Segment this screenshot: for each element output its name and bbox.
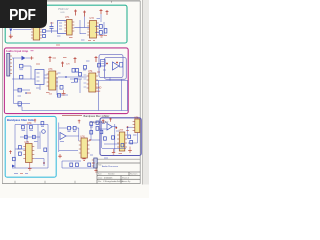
capacitor C12 xyxy=(30,126,33,129)
date text value xyxy=(103,177,124,183)
svg-text:PDF: PDF xyxy=(9,6,36,24)
svg-text:U?1: U?1 xyxy=(65,16,70,19)
wire (below U6 net) xyxy=(62,161,94,168)
value label (mid) xyxy=(66,64,70,66)
power dot (A3) xyxy=(116,62,118,64)
ground (purple box 1) xyxy=(128,147,132,153)
capacitor C28 xyxy=(84,66,87,70)
svg-text:Number: Number xyxy=(108,173,115,176)
power flag (left of purple box) xyxy=(78,120,81,124)
wire (U2 right rail) xyxy=(100,14,102,22)
title text value xyxy=(102,165,118,168)
capacitor C9 xyxy=(58,94,61,98)
junction node (mid wire) xyxy=(65,76,67,78)
relay K1 xyxy=(58,21,67,34)
junction node (U6 out) xyxy=(89,139,91,141)
preamp block A1 xyxy=(35,70,44,85)
op-amp A5 xyxy=(107,124,112,131)
wire (U5 output) xyxy=(34,159,44,167)
capacitor C8 xyxy=(75,79,78,83)
power flag +12V xyxy=(74,10,77,16)
svg-text:U?7: U?7 xyxy=(119,129,124,132)
wire stub (between regions) xyxy=(56,44,60,46)
driver U8 xyxy=(133,119,140,133)
svg-text:File:: File: xyxy=(98,181,102,183)
ground (below U5) xyxy=(28,163,32,171)
resistor R4 xyxy=(19,146,22,149)
capacitor Ca xyxy=(43,30,46,33)
capacitor C4 xyxy=(20,64,24,70)
capacitor C20 xyxy=(112,136,115,139)
svg-text:4/11/2005: 4/11/2005 xyxy=(104,177,112,179)
capacitor C24 xyxy=(121,144,124,147)
title block outline xyxy=(97,163,140,183)
capacitor C10 xyxy=(60,86,63,90)
value label (below U7) xyxy=(119,153,123,155)
wire (A1 to U3) xyxy=(40,78,47,90)
capacitor C16 xyxy=(90,122,93,126)
regulator U2 xyxy=(87,21,98,39)
transistor Q1 xyxy=(76,69,82,77)
resistor R1 xyxy=(104,29,107,36)
label (cap value) xyxy=(18,106,22,108)
junction node (pa) xyxy=(115,127,117,129)
capacitor C13 xyxy=(41,122,44,125)
svg-text:U?6: U?6 xyxy=(80,135,85,138)
label U2 xyxy=(90,17,95,20)
connector J2 xyxy=(92,158,97,168)
ground (mid low) xyxy=(58,154,62,158)
resistor R7 xyxy=(70,163,73,167)
sheet frame left border xyxy=(1,26,3,184)
svg-text:Revision: Revision xyxy=(130,174,137,176)
label U5 xyxy=(25,141,30,144)
ground (below D1) xyxy=(9,34,13,39)
capacitor C6 xyxy=(18,88,21,92)
label U1 xyxy=(65,16,70,19)
svg-text:U?2: U?2 xyxy=(90,17,95,20)
power amp U7 xyxy=(117,132,127,151)
wire (J1 to A1) xyxy=(12,58,35,104)
svg-text:Audio Processor: Audio Processor xyxy=(102,165,118,168)
purple sub box A xyxy=(99,55,123,78)
resistor R2 xyxy=(25,135,28,138)
capacitor C15 xyxy=(73,126,76,129)
value label specks (net/value texts) xyxy=(14,19,137,174)
resistor R6 xyxy=(19,152,22,155)
regulator U1 xyxy=(64,20,74,36)
svg-text:Audio Input Amp: Audio Input Amp xyxy=(6,49,29,53)
svg-text:12V: 12V xyxy=(66,64,70,66)
value label (below U3) xyxy=(49,94,53,96)
section label (dark) xyxy=(62,114,110,118)
capacitor C2 xyxy=(99,25,102,29)
power flag (pa1) xyxy=(102,119,105,123)
capacitor C18 xyxy=(100,130,103,133)
label U3 xyxy=(48,68,53,71)
wire (purple box nets) xyxy=(99,121,137,152)
comparator A3 xyxy=(113,62,120,70)
net label (red AGND text) xyxy=(96,91,101,93)
svg-text:Size: Size xyxy=(98,174,102,176)
CYAN REGION box (bandpass filter section) xyxy=(5,116,56,177)
wire (U4 output loop) xyxy=(22,78,128,111)
wire (vertical feedback) xyxy=(57,77,80,95)
capacitor C33 xyxy=(44,148,47,152)
PURPLE REGION box (output power amplifier) xyxy=(100,118,141,156)
wire (U1 to U2) xyxy=(74,17,89,35)
ground (below J2) xyxy=(94,168,97,172)
svg-text:U?9: U?9 xyxy=(27,122,32,125)
ground (green region right) xyxy=(100,36,104,38)
capacitor C21 xyxy=(128,135,131,138)
ground (purple box 2) xyxy=(112,149,115,154)
power flag (cyan left) xyxy=(9,150,12,154)
ground (mid magenta) xyxy=(62,90,66,95)
title block text xyxy=(98,164,137,184)
capacitor C19 xyxy=(104,137,107,140)
microphone jack J1 xyxy=(7,54,12,77)
regulator U0 (under badge) xyxy=(31,27,42,41)
sheet frame top border xyxy=(40,0,140,2)
net label PWR (gray text top) xyxy=(58,8,69,14)
svg-text:REF: REF xyxy=(96,91,101,93)
capacitor C1 xyxy=(50,22,54,33)
power flag (cyan top) xyxy=(34,119,36,123)
sheet frame bottom border xyxy=(2,183,141,185)
label U7 xyxy=(119,129,124,132)
capacitor C3 xyxy=(99,31,102,35)
op-amp U4 xyxy=(87,73,98,92)
wire (bp2 input) xyxy=(59,123,91,153)
capacitor C11 xyxy=(22,126,25,129)
capacitor C23 xyxy=(96,121,99,124)
op-amp U6 xyxy=(79,138,90,158)
label U4 xyxy=(88,70,93,73)
label (cyan top red) xyxy=(27,122,32,125)
wire (C2-C3 rail) xyxy=(95,22,104,35)
page right margin xyxy=(143,0,149,185)
page background xyxy=(0,0,149,198)
svg-text:U?3: U?3 xyxy=(48,68,53,71)
capacitor C31 xyxy=(76,163,79,167)
junction node (filter) xyxy=(43,162,45,164)
svg-text:PWR 12V: PWR 12V xyxy=(58,8,69,11)
svg-text:Sheet of: Sheet of xyxy=(122,176,130,179)
svg-text:U?5: U?5 xyxy=(25,141,30,144)
wire (parallel net) xyxy=(70,78,82,80)
power flag (mid) xyxy=(61,62,64,68)
svg-text:U?8: U?8 xyxy=(134,116,139,119)
power flag (pa2) xyxy=(109,118,112,122)
sheet frame right border xyxy=(139,1,141,184)
svg-text:Title: Title xyxy=(98,164,102,167)
op-amp U3 xyxy=(47,71,58,90)
red stub (mid left) xyxy=(25,92,31,94)
wire (magenta bottom rail) xyxy=(14,103,31,105)
ground (below U6) xyxy=(82,158,86,160)
capacitor Cb xyxy=(43,35,46,38)
capacitor C25 (outside left) xyxy=(96,127,99,131)
capacitor C17 xyxy=(90,131,93,135)
label U6 xyxy=(80,135,85,138)
net label (below U2) xyxy=(88,40,95,42)
junction node xyxy=(106,63,108,65)
block U5a xyxy=(101,60,106,67)
capacitor C22 xyxy=(130,141,133,144)
diode D3 xyxy=(12,165,15,168)
power flag +5V xyxy=(100,9,103,14)
power flag +5V b xyxy=(106,10,109,15)
MAGENTA REGION box (audio input amplifier section) xyxy=(4,48,128,114)
resistor R5 xyxy=(13,157,16,160)
diode D1 xyxy=(9,29,12,35)
svg-text:Date:: Date: xyxy=(98,176,103,179)
capacitor C7 xyxy=(72,69,75,73)
junction node (pa2) xyxy=(127,126,129,128)
capacitor C26 xyxy=(18,102,21,106)
net label (red GND text) xyxy=(96,87,102,90)
buffer circle A6 xyxy=(42,130,46,134)
title region top line xyxy=(97,158,140,160)
capacitor C29 xyxy=(98,64,101,68)
svg-text:GND: GND xyxy=(60,12,65,14)
power flag (above C8) xyxy=(74,57,77,63)
svg-text:C:\Design\audio.SchDoc: C:\Design\audio.SchDoc xyxy=(103,181,124,183)
polarized cap CP1 xyxy=(30,56,34,59)
resistor R3 xyxy=(33,135,36,138)
pin labels (U4 left) xyxy=(84,75,87,87)
GREEN REGION box (power supply section) xyxy=(5,5,127,43)
power flag (above U3) xyxy=(49,56,52,62)
wire (U6 output to purple box) xyxy=(90,139,101,141)
svg-text:U?4: U?4 xyxy=(88,70,93,73)
capacitor C5 xyxy=(20,75,23,79)
power flag VCC xyxy=(83,11,86,17)
purple sub box B xyxy=(105,58,127,80)
wire (input to relay) xyxy=(13,30,58,32)
capacitor C14 xyxy=(68,126,71,129)
value label (A1 top) xyxy=(36,58,56,64)
comparator A3b xyxy=(120,63,123,68)
label U8 xyxy=(134,116,139,119)
op-amp A4 xyxy=(60,133,66,140)
wire (filter top rail) xyxy=(12,125,48,169)
wire (U3 to U4) xyxy=(58,76,87,78)
section label 2 (dark blue) xyxy=(90,120,108,124)
svg-text:GND: GND xyxy=(96,87,102,90)
PDF badge xyxy=(0,0,47,28)
zone tick marks xyxy=(15,181,75,184)
op-amp U5 xyxy=(23,144,34,163)
diode D2 xyxy=(12,56,30,60)
power flag (above U4) xyxy=(95,56,98,62)
svg-text:Bandpass filter 1.8kHz: Bandpass filter 1.8kHz xyxy=(84,114,111,118)
capacitor C32 xyxy=(88,163,91,167)
